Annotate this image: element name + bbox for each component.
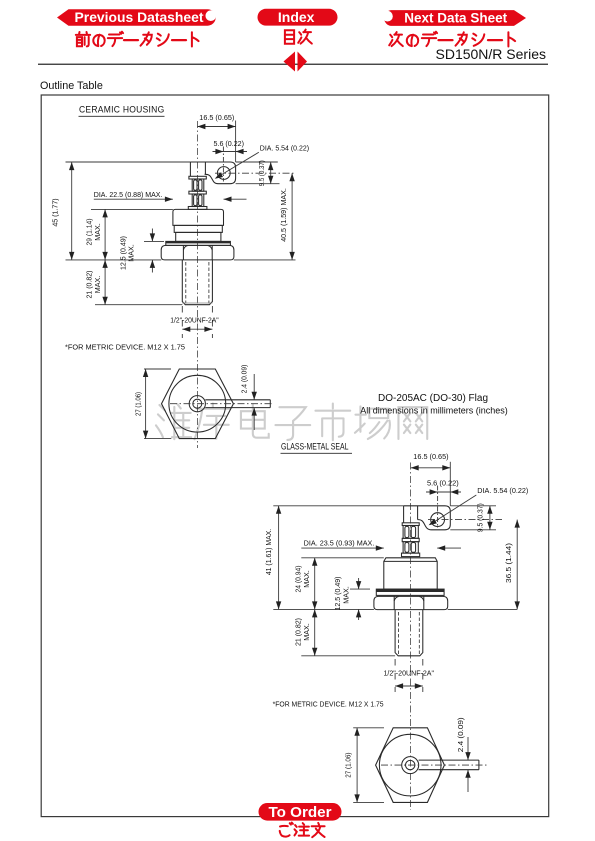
svg-text:All dimensions in millimeters: All dimensions in millimeters (inches) <box>360 406 508 416</box>
svg-text:Outline Table: Outline Table <box>40 80 103 92</box>
svg-text:1/2"-20UNF-2A": 1/2"-20UNF-2A" <box>170 316 219 325</box>
svg-text:45 (1.77): 45 (1.77) <box>51 198 60 226</box>
svg-text:MAX.: MAX. <box>127 244 136 262</box>
svg-text:MAX.: MAX. <box>93 223 102 241</box>
svg-text:41 (1.61) MAX.: 41 (1.61) MAX. <box>264 529 273 575</box>
svg-text:36.5 (1.44): 36.5 (1.44) <box>504 543 513 583</box>
svg-text:DO-205AC (DO-30) Flag: DO-205AC (DO-30) Flag <box>378 393 488 404</box>
svg-text:MAX.: MAX. <box>341 586 350 604</box>
svg-text:9.5 (0.37): 9.5 (0.37) <box>257 160 266 186</box>
svg-text:16.5 (0.65): 16.5 (0.65) <box>199 113 234 122</box>
svg-text:16.5 (0.65): 16.5 (0.65) <box>413 452 448 461</box>
svg-text:DIA. 5.54 (0.22): DIA. 5.54 (0.22) <box>260 144 309 153</box>
svg-text:GLASS-METAL SEAL: GLASS-METAL SEAL <box>281 441 349 452</box>
svg-text:DIA. 23.5 (0.93) MAX.: DIA. 23.5 (0.93) MAX. <box>304 539 375 548</box>
svg-text:40.5 (1.59) MAX.: 40.5 (1.59) MAX. <box>279 188 288 242</box>
svg-text:MAX.: MAX. <box>302 570 311 588</box>
svg-text:5.6 (0.22): 5.6 (0.22) <box>427 479 459 488</box>
svg-text:9.5 (0.37): 9.5 (0.37) <box>475 503 484 532</box>
svg-text:SD150N/R Series: SD150N/R Series <box>436 46 547 62</box>
svg-text:27 (1.06): 27 (1.06) <box>133 392 142 416</box>
svg-text:MAX.: MAX. <box>302 623 311 641</box>
svg-text:CERAMIC HOUSING: CERAMIC HOUSING <box>79 104 165 115</box>
svg-text:Previous Datasheet: Previous Datasheet <box>75 9 204 25</box>
svg-text:5.6 (0.22): 5.6 (0.22) <box>214 139 245 148</box>
svg-text:2.4 (0.09): 2.4 (0.09) <box>456 717 465 752</box>
svg-text:*FOR METRIC DEVICE. M12 X 1.75: *FOR METRIC DEVICE. M12 X 1.75 <box>65 343 185 352</box>
svg-text:To Order: To Order <box>268 804 331 821</box>
svg-text:2.4 (0.09): 2.4 (0.09) <box>239 365 248 394</box>
svg-text:DIA. 5.54 (0.22): DIA. 5.54 (0.22) <box>477 486 528 495</box>
svg-text:Next Data Sheet: Next Data Sheet <box>404 11 507 26</box>
svg-text:Index: Index <box>278 9 315 25</box>
svg-text:MAX.: MAX. <box>93 276 102 294</box>
svg-text:DIA. 22.5 (0.88) MAX.: DIA. 22.5 (0.88) MAX. <box>94 190 163 199</box>
svg-text:*FOR METRIC DEVICE. M12 X 1.75: *FOR METRIC DEVICE. M12 X 1.75 <box>273 700 384 709</box>
svg-text:1/2"-20UNF-2A": 1/2"-20UNF-2A" <box>384 669 435 678</box>
svg-text:27 (1.06): 27 (1.06) <box>344 753 353 778</box>
